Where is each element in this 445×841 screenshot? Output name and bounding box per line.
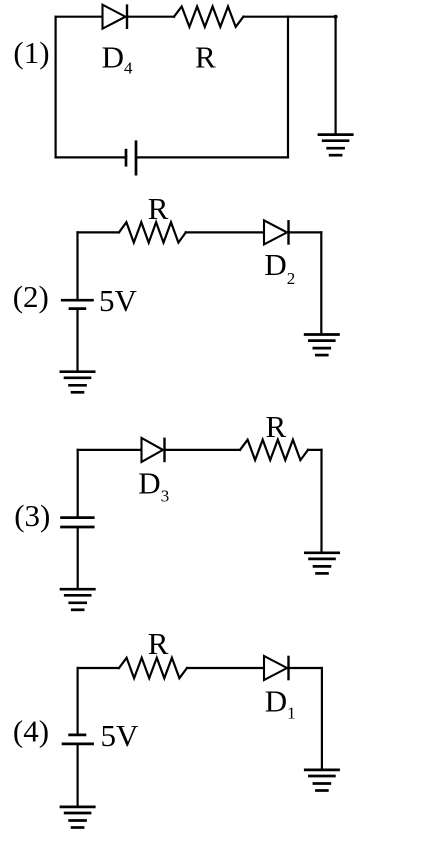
wire left side circuit 2: [76, 232, 78, 299]
svg-text:5V: 5V: [99, 283, 138, 318]
wire resistor-to-diode circuit 2: [186, 231, 264, 233]
wire right side circuit 1: [287, 17, 289, 158]
wire capacitor-to-ground circuit 3: [77, 528, 79, 589]
wire left side circuit 1: [54, 17, 56, 158]
diode D2: [264, 220, 289, 245]
wire left side circuit 3: [77, 450, 79, 517]
svg-text:(3): (3): [14, 498, 50, 533]
wire battery-to-right circuit 1: [136, 156, 288, 158]
ground right circuit 3: [304, 553, 340, 574]
node junction dot circuit 1: [334, 15, 338, 19]
diode D1: [264, 656, 289, 681]
wire resistor-to-diode circuit 4: [187, 667, 264, 669]
ground left circuit 3: [60, 589, 96, 610]
svg-text:5V: 5V: [101, 718, 140, 753]
ground left circuit 2: [60, 372, 96, 393]
wire top-left segment circuit 3: [78, 449, 142, 451]
wire resistor-to-corner circuit 3: [308, 449, 322, 451]
wire diode-to-corner circuit 4: [290, 667, 322, 669]
battery cell circuit 1: [126, 140, 136, 175]
diode D3: [142, 438, 165, 463]
wire node-to-ground circuit 1: [335, 17, 337, 135]
wire right side circuit 4: [321, 668, 323, 770]
wire top-left segment circuit 4: [78, 667, 119, 669]
wire top-left segment circuit 2: [78, 231, 120, 233]
resistor R circuit 2: [119, 222, 186, 242]
svg-text:(2): (2): [13, 279, 49, 314]
diode D4: [103, 4, 128, 29]
wire top-left segment circuit 1: [56, 16, 103, 18]
svg-text:R: R: [195, 40, 216, 75]
resistor R circuit 4: [119, 658, 187, 678]
resistor R circuit 3: [240, 440, 308, 460]
wire resistor-to-node circuit 1: [243, 16, 335, 18]
resistor R circuit 1: [174, 7, 243, 27]
wire right side circuit 3: [320, 450, 322, 553]
svg-text:R: R: [148, 626, 169, 661]
wire battery-to-ground circuit 4: [76, 744, 78, 807]
ground circuit 1: [318, 135, 354, 156]
wire diode-to-corner circuit 2: [290, 231, 321, 233]
battery 5V circuit 4: [62, 735, 94, 744]
svg-text:(1): (1): [13, 35, 49, 70]
wire left side circuit 4: [76, 668, 78, 734]
capacitor circuit 3: [60, 518, 94, 527]
wire battery-to-ground circuit 2: [76, 309, 78, 372]
wire diode-to-resistor circuit 1: [129, 16, 174, 18]
battery 5V circuit 2: [61, 300, 94, 308]
ground left circuit 4: [60, 807, 96, 828]
wire right side circuit 2: [320, 232, 322, 334]
svg-text:R: R: [148, 191, 169, 226]
ground right circuit 2: [304, 335, 340, 356]
svg-text:(4): (4): [13, 714, 49, 749]
svg-text:R: R: [266, 409, 287, 444]
ground right circuit 4: [304, 770, 340, 791]
wire diode-to-resistor circuit 3: [166, 449, 240, 451]
wire bottom-left to battery circuit 1: [56, 156, 126, 158]
